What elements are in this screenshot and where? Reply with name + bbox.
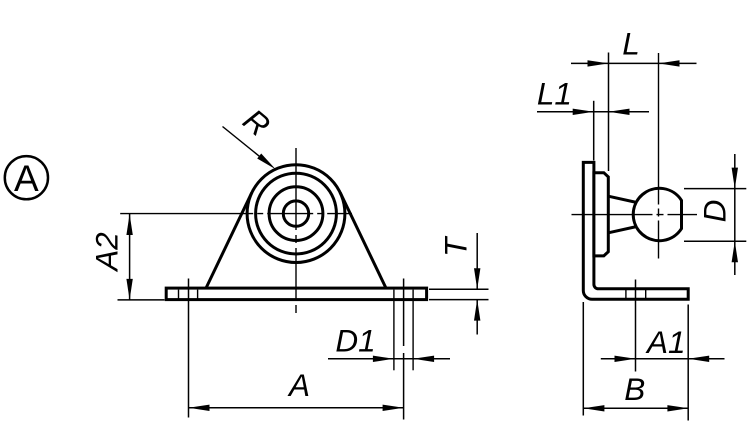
right mounting-hole edge lines xyxy=(393,290,395,371)
view label circle A xyxy=(5,156,48,199)
ball stud neck xyxy=(608,196,637,202)
base plate (front view) xyxy=(166,288,426,300)
flange disc (side view) xyxy=(594,173,608,256)
boss circle 3 xyxy=(269,187,323,241)
dimension A xyxy=(189,407,404,409)
leg hole edge lines (side view) xyxy=(625,290,627,299)
tent outline right side xyxy=(340,192,386,288)
dimension L xyxy=(571,62,697,64)
svg-text:D: D xyxy=(697,200,733,223)
ball with right flat xyxy=(633,188,681,240)
svg-text:A: A xyxy=(14,158,39,199)
boss circle 2 xyxy=(256,173,337,254)
leg hole centerline / A1 extension xyxy=(635,280,637,372)
right hole centerline / A extension xyxy=(403,279,405,347)
svg-text:A1: A1 xyxy=(645,324,686,360)
svg-text:A: A xyxy=(287,367,310,403)
dimension A1 xyxy=(601,358,725,360)
left hole centerline / A extension xyxy=(188,279,190,418)
dimension D1 xyxy=(328,358,450,360)
vertical centerline of boss xyxy=(295,148,297,316)
left mounting-hole edge lines xyxy=(178,290,180,299)
svg-text:D1: D1 xyxy=(335,323,375,359)
radius leader R xyxy=(223,127,263,159)
svg-text:B: B xyxy=(624,371,645,407)
center hole circle xyxy=(283,201,308,226)
svg-text:L: L xyxy=(622,26,640,62)
dimension A2 xyxy=(118,299,165,301)
boss outer circle xyxy=(247,165,345,263)
dimension D xyxy=(684,188,746,190)
dimension L1 xyxy=(537,111,649,113)
svg-text:L1: L1 xyxy=(537,76,572,112)
ball vertical centerline / L extension xyxy=(658,53,660,259)
tent outline left side xyxy=(206,192,252,288)
ball horizontal centerline xyxy=(572,214,698,216)
dimension B xyxy=(582,302,584,416)
horizontal centerline of boss / A2 extension xyxy=(120,213,352,215)
svg-text:A2: A2 xyxy=(89,232,125,273)
angle bracket profile (side view) xyxy=(583,162,688,299)
svg-text:T: T xyxy=(438,235,474,257)
dimension T xyxy=(429,288,489,290)
